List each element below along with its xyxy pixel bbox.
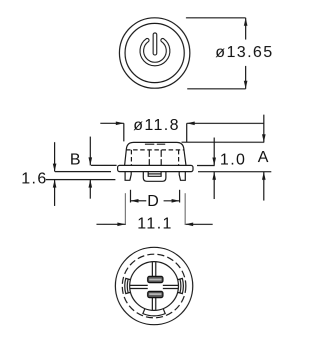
dimension 1.6 bottom arrow <box>54 180 56 206</box>
svg-text:D: D <box>147 193 160 210</box>
bottom view left leg tab <box>125 278 131 293</box>
dimension 11.1 right arrow <box>185 223 213 225</box>
side view center post inner line <box>148 173 161 175</box>
dimension D left arrow <box>130 200 146 202</box>
side view hidden slot line (dashed, near top) <box>145 143 165 145</box>
bottom view lower contact block <box>148 291 163 297</box>
side view hidden skirt wall left (dashed) <box>130 150 132 166</box>
bottom view right leg tab <box>177 278 183 293</box>
power symbol bar (outlined) <box>153 35 158 53</box>
dimension D left extension line <box>129 190 131 203</box>
dimension B bottom arrow <box>89 180 91 199</box>
dimension ø13.65 bottom extension line <box>187 88 245 90</box>
bottom view inner circle (skirt) <box>130 262 179 311</box>
svg-text:ø11.8: ø11.8 <box>133 117 180 134</box>
dimension ø13.65 upper arrow <box>245 18 247 40</box>
dimension D right arrow <box>164 200 180 202</box>
dimension D right extension line <box>179 190 181 203</box>
bottom view outer circle (flange) <box>115 247 192 324</box>
bottom view upper contact block <box>148 276 163 282</box>
dimension ø11.8 left extension line <box>123 123 125 141</box>
flange top extension line right <box>197 165 215 167</box>
side view center post outline <box>143 172 166 182</box>
dimension 1.0 top arrow <box>213 138 215 166</box>
svg-text:11.1: 11.1 <box>137 216 173 233</box>
svg-text:B: B <box>70 151 82 168</box>
svg-text:1.0: 1.0 <box>220 151 246 168</box>
side view flange <box>118 165 193 171</box>
legs bottom extension line left <box>46 179 115 181</box>
dimension ø11.8 left arrow <box>100 122 124 124</box>
side view center post inner slot <box>148 172 161 177</box>
dimension ø13.65 lower arrow <box>245 66 247 89</box>
power symbol arc (outlined) <box>142 40 168 64</box>
bottom view dashed circle <box>122 254 186 318</box>
side view left leg <box>125 172 131 181</box>
bottom view cross horizontal left <box>130 285 148 288</box>
bottom view cross vertical upper <box>152 262 155 276</box>
bottom view bottom key tab <box>143 308 165 315</box>
flange top extension line left <box>91 164 117 166</box>
dimension 1.0 bottom arrow <box>213 172 215 199</box>
svg-text:A: A <box>258 149 270 166</box>
dimension ø13.65 top extension line <box>186 17 246 19</box>
side view hidden cavity ceiling (dashed) <box>126 149 185 151</box>
bottom view cross horizontal right <box>163 285 178 288</box>
cap top extension line <box>182 141 265 143</box>
svg-text:1.6: 1.6 <box>21 170 47 187</box>
side view cap body outline <box>125 142 186 165</box>
side view right leg <box>179 172 185 181</box>
dimension 11.1 left arrow <box>96 223 125 225</box>
side view hidden skirt wall right (dashed) <box>178 150 180 166</box>
dimension ø11.8 right extension line <box>186 123 188 142</box>
dimension ø11.8 right arrow with tail to A dimension <box>187 122 264 124</box>
side view hidden post wall right (dashed) <box>160 150 162 166</box>
dimension 11.1 left extension line <box>124 193 126 225</box>
dimension B top arrow <box>89 137 91 166</box>
top view outer circle (cap rim, ø13.65) <box>119 18 189 88</box>
dimension 11.1 right extension line <box>184 193 186 225</box>
side view hidden post wall left (dashed) <box>148 150 150 166</box>
dimension A top arrow <box>263 115 265 143</box>
flange bottom extension line right <box>198 171 271 173</box>
bottom view cross vertical lower <box>152 298 155 311</box>
flange bottom extension line left <box>55 171 111 173</box>
dimension 1.6 top arrow <box>54 142 56 171</box>
top view inner circle (button face) <box>125 23 184 82</box>
svg-text:ø13.65: ø13.65 <box>215 44 273 61</box>
dimension A bottom arrow <box>263 172 265 201</box>
